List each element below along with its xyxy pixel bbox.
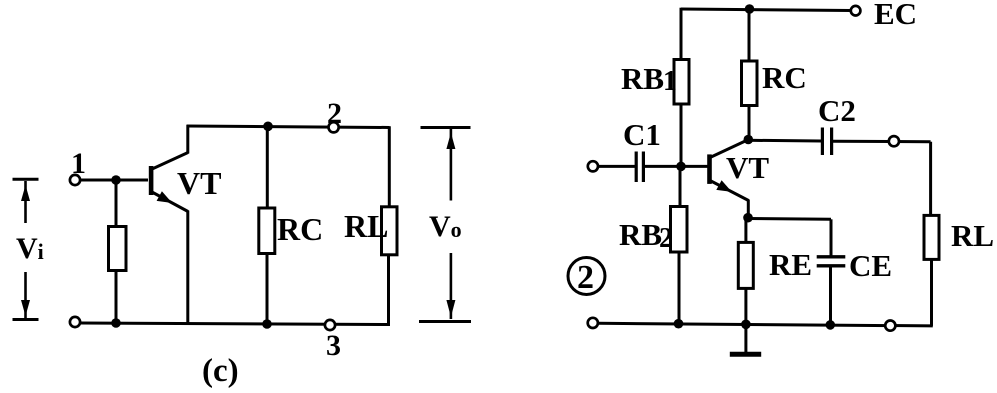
resistor RL	[382, 207, 398, 255]
capacitor CE bottom plate	[817, 264, 846, 267]
wire resistor to bottom rail	[115, 271, 118, 324]
transistor VT base bar	[149, 166, 154, 195]
capacitor C1 right plate	[642, 152, 645, 183]
junction base node	[676, 162, 686, 172]
wire RL branch vertical lower	[387, 255, 390, 327]
svg-text:(c): (c)	[202, 353, 239, 389]
wire down to resistor	[115, 180, 118, 227]
wire collector to C2	[748, 139, 821, 143]
transistor VT2 collector diagonal	[710, 140, 749, 158]
svg-text:EC: EC	[874, 0, 917, 31]
svg-text:RC: RC	[277, 211, 323, 247]
node 3 circle	[325, 320, 335, 330]
svg-text:2: 2	[659, 223, 673, 254]
svg-text:3: 3	[326, 329, 341, 362]
wire RC lower	[266, 254, 269, 325]
svg-text:C1: C1	[623, 117, 661, 152]
bottom terminal circle right circuit	[588, 318, 598, 328]
junction RC top	[263, 122, 273, 132]
svg-text:RC: RC	[762, 60, 807, 95]
capacitor C1 left plate	[635, 152, 638, 183]
resistor RB1	[674, 60, 689, 105]
wire input to C1	[598, 165, 635, 168]
wire emitter node to CE	[748, 217, 831, 221]
wire bottom rail	[80, 323, 389, 325]
Vo dimension bottom bar	[419, 320, 471, 323]
junction RB2 bottom	[674, 319, 684, 329]
Vi dimension upper line	[24, 181, 27, 223]
svg-text:VT: VT	[726, 150, 769, 185]
svg-text:1: 1	[663, 66, 677, 97]
Vi dimension upper arrow	[21, 185, 30, 201]
transistor VT2 emitter arrow	[716, 180, 732, 192]
svg-text:C2: C2	[818, 93, 856, 128]
ground bar	[730, 352, 761, 357]
wire RL right lower	[930, 259, 933, 326]
node 1 terminal circle	[70, 175, 80, 185]
wire RB2 upper	[679, 166, 682, 207]
resistor RC	[259, 208, 275, 254]
Vo dimension lower arrow	[446, 300, 455, 317]
wire RE vertical lower	[744, 288, 747, 325]
wire RL branch vertical upper	[388, 126, 391, 207]
capacitor C2 right plate	[830, 128, 833, 156]
junction RE bottom	[741, 320, 751, 330]
svg-text:RB: RB	[619, 217, 662, 252]
resistor RB (unlabeled input resistor)	[109, 227, 127, 271]
circled figure number 2	[568, 258, 605, 295]
wire C1 to base junction	[645, 165, 708, 168]
svg-text:2: 2	[327, 97, 342, 130]
Vi dimension bottom bar	[13, 318, 39, 321]
node 2 circle	[329, 122, 339, 132]
Vi dimension lower line	[24, 272, 27, 318]
wire RB1 lower	[680, 104, 683, 167]
junction emitter node	[743, 213, 753, 223]
Vi dimension lower arrow	[21, 300, 30, 316]
transistor VT emitter arrow	[157, 191, 173, 203]
junction CE bottom	[826, 320, 836, 330]
Vo dimension upper line	[450, 129, 453, 201]
wire emitter vertical	[186, 211, 189, 325]
resistor RB2	[671, 207, 688, 253]
transistor VT collector diagonal	[151, 153, 188, 170]
terminal EC circle	[851, 6, 861, 16]
svg-text:RL: RL	[951, 218, 994, 253]
wire top rail right	[681, 9, 851, 11]
svg-text:CE: CE	[849, 248, 892, 283]
Vo dimension lower line	[450, 253, 453, 319]
wire RB1 upper	[680, 8, 683, 61]
wire RB2 lower	[678, 252, 681, 324]
wire top rail	[187, 126, 390, 128]
svg-text:1: 1	[71, 147, 86, 180]
wire RE vertical upper	[744, 218, 747, 244]
transistor VT emitter diagonal	[151, 192, 188, 212]
Vo dimension upper arrow	[446, 133, 455, 150]
Vi dimension top bar	[13, 178, 39, 181]
capacitor C2 left plate	[821, 128, 824, 156]
output terminal circle bottom	[885, 321, 895, 331]
wire emitter vertical	[747, 200, 750, 219]
svg-text:RB: RB	[621, 61, 664, 96]
Vo dimension top bar	[421, 126, 471, 129]
junction input node	[111, 175, 121, 185]
junction bottom input node	[111, 318, 121, 328]
input terminal circle right	[588, 161, 598, 171]
wire CE vertical lower	[829, 266, 832, 325]
resistor RL right	[924, 215, 939, 259]
wire RC upper	[266, 126, 269, 209]
resistor RC right	[742, 61, 758, 106]
ground stub	[744, 325, 747, 354]
svg-text:VT: VT	[177, 165, 221, 201]
transistor VT2 base bar	[707, 154, 712, 184]
wire RC right upper	[748, 9, 751, 62]
wire CE vertical upper	[830, 219, 833, 256]
wire base input	[80, 179, 148, 182]
output terminal circle top	[889, 136, 899, 146]
transistor VT2 emitter diagonal	[710, 181, 749, 201]
wire RL right upper	[929, 142, 932, 216]
wire C2 to output	[833, 140, 931, 144]
bottom terminal circle left	[70, 317, 80, 327]
svg-text:RL: RL	[344, 208, 388, 244]
resistor RE	[738, 242, 753, 288]
svg-text:2: 2	[577, 259, 594, 296]
wire collector vertical	[186, 125, 189, 154]
junction collector node	[744, 135, 754, 145]
svg-text:RE: RE	[769, 247, 812, 282]
capacitor CE top plate	[817, 255, 846, 258]
wire bottom rail right	[598, 323, 933, 326]
junction RC bottom	[262, 319, 272, 329]
junction top rail RC	[745, 4, 755, 14]
wire RC right lower	[748, 106, 751, 141]
